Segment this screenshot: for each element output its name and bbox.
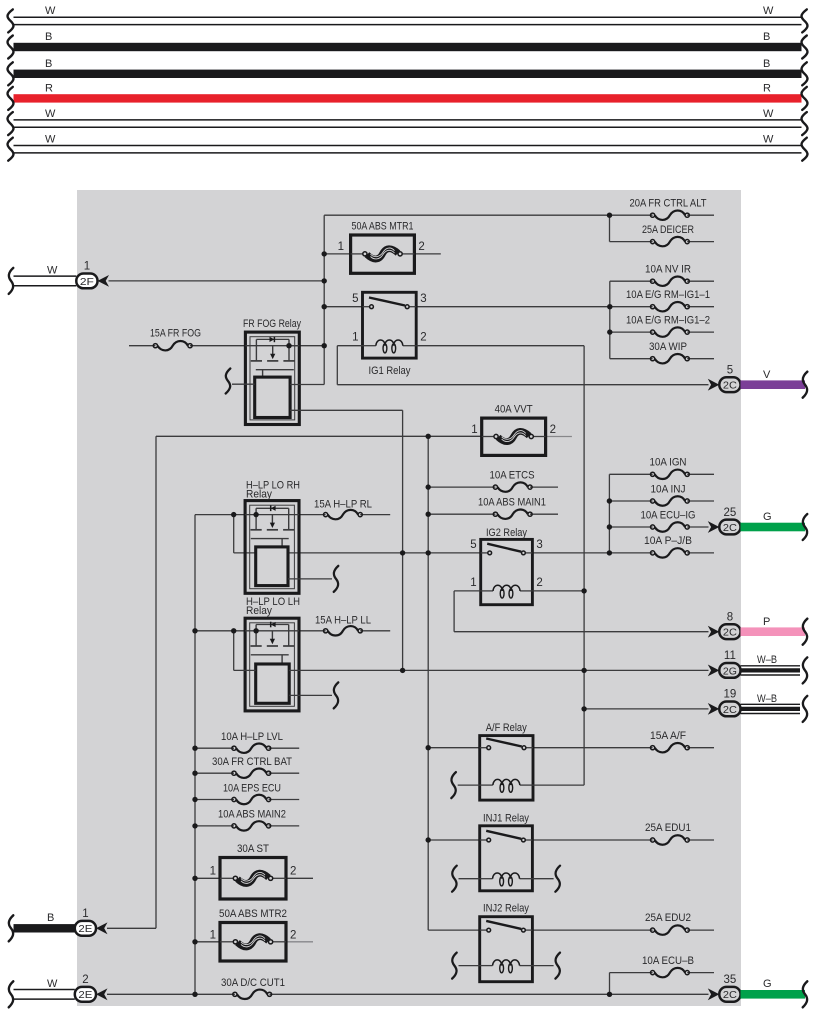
fuse 50A ABS MTR2 (220, 923, 286, 962)
wire: INJ2 feed row (428, 929, 480, 931)
fuse 10A NV IR (645, 264, 691, 286)
wire: 50A ABS MTR1 output stub (414, 253, 440, 255)
fuse 10A INJ (651, 484, 690, 506)
wire: IG2 pin3 to 10A P-J/B row (532, 552, 714, 554)
svg-text:B: B (47, 912, 54, 924)
wire: 2C-19 row (584, 708, 708, 710)
wire: IG2 pin1 stub (454, 590, 481, 592)
wire: 10A ABS MAIN2 row (195, 825, 299, 827)
wire: 2F row (109, 280, 325, 282)
svg-text:2G: 2G (723, 666, 737, 677)
harness wire B (8, 31, 808, 58)
fuse 30A FR CTRL BAT (212, 756, 292, 778)
wire: IG1 pin1 stub (337, 345, 362, 347)
svg-text:1: 1 (471, 424, 477, 436)
relay IG2 box (470, 539, 543, 605)
fuse/relay box panel (77, 190, 741, 1006)
svg-text:10A ABS MAIN2: 10A ABS MAIN2 (218, 809, 286, 821)
svg-text:2F: 2F (80, 277, 94, 288)
svg-text:1: 1 (210, 866, 216, 878)
svg-text:1: 1 (338, 241, 344, 253)
relay INJ2 box (480, 917, 533, 982)
wire: A/F pin out to 15A A/F row (533, 747, 714, 749)
svg-text:INJ1 Relay: INJ1 Relay (483, 813, 529, 825)
relay FR FOG box (245, 332, 299, 424)
svg-text:10A IGN: 10A IGN (650, 457, 687, 469)
wire: bus x=428 ECU feed down (427, 436, 429, 930)
fuse 25A EDU2 (645, 912, 691, 935)
svg-text:2E: 2E (78, 924, 92, 935)
connector 2C pin 19 with W-B wire (708, 689, 808, 722)
svg-text:20A FR CTRL ALT: 20A FR CTRL ALT (630, 198, 707, 210)
wire: A/F coil right to bus x=584 (533, 784, 584, 786)
svg-text:2: 2 (82, 974, 88, 986)
svg-text:INJ2 Relay: INJ2 Relay (483, 903, 529, 915)
svg-text:G: G (763, 978, 772, 990)
fuse 25A EDU1 (645, 822, 691, 845)
relay A/F box (480, 736, 533, 801)
wire: H-LP RH inner feed drop x=233.7 (233, 515, 235, 553)
svg-text:2C: 2C (723, 628, 738, 639)
svg-text:50A ABS MTR1: 50A ABS MTR1 (352, 221, 414, 233)
fuse 10A ABS MAIN2 (218, 809, 286, 831)
wire: H-LP LH inner feed drop x=233.7 (233, 631, 235, 671)
wire: 10A ECU-B row (610, 972, 715, 974)
svg-text:25A DEICER: 25A DEICER (642, 224, 694, 236)
svg-text:15A FR FOG: 15A FR FOG (150, 328, 201, 340)
svg-text:40A VVT: 40A VVT (495, 404, 533, 416)
wire: bus x=584 IG1 pin2 down (583, 346, 585, 785)
wire: H-LP LH second output to break (289, 682, 338, 708)
svg-text:10A ETCS: 10A ETCS (490, 470, 535, 482)
connector 2C pin 8 with P wire (708, 612, 808, 645)
svg-text:W: W (763, 108, 774, 120)
svg-text:5: 5 (470, 539, 476, 551)
svg-text:2E: 2E (78, 990, 92, 1001)
wire: 10A E/G RM-IG1-2 row (610, 331, 714, 333)
fuse 15A A/F (650, 730, 689, 752)
wire: 25A DEICER row (610, 241, 715, 243)
wire: 50A ABS MTR1 feed row (324, 253, 350, 255)
wire: switched row H-LP LH out to 2G-11 (234, 669, 709, 671)
wire: H-LP RH second output to break (288, 566, 338, 592)
svg-text:FR FOG Relay: FR FOG Relay (243, 318, 301, 330)
fuse 10A EPS ECU (223, 783, 281, 805)
svg-text:B: B (763, 31, 770, 43)
wire: 40A VVT output stub (546, 436, 572, 438)
svg-text:2: 2 (418, 241, 424, 253)
svg-text:30A FR CTRL BAT: 30A FR CTRL BAT (212, 756, 292, 768)
connector 2G pin 11 with W-B wire (708, 650, 808, 683)
harness wire R (8, 83, 808, 110)
connector 2C pin 25 with G wire (708, 507, 808, 540)
svg-text:W–B: W–B (757, 654, 777, 666)
svg-text:A/F Relay: A/F Relay (486, 722, 527, 734)
wire: 20A/25A fuse branch vertical (609, 215, 611, 241)
wire: 10A INJ row (609, 500, 714, 502)
wire: FR FOG inner second output (290, 409, 403, 411)
svg-text:35: 35 (724, 974, 737, 986)
wire: main feed row y=436 (156, 435, 482, 437)
svg-text:2: 2 (290, 930, 296, 942)
fuse 40A VVT (482, 418, 546, 455)
label H-LP LO LH Relay (246, 596, 300, 617)
svg-text:W–B: W–B (757, 693, 777, 705)
fuse 10A E/G RM-IG1-2 (626, 315, 710, 337)
fuse 10A H-LP LVL (221, 731, 283, 753)
wire: FR FOG output to bus (289, 345, 324, 347)
svg-text:W: W (45, 108, 56, 120)
svg-text:1: 1 (210, 930, 216, 942)
fuse 15A FR FOG (150, 328, 201, 351)
svg-text:B: B (45, 58, 52, 70)
svg-text:2C: 2C (723, 381, 738, 392)
wire: 10A ETCS row (428, 486, 558, 488)
svg-text:2C: 2C (723, 990, 738, 1001)
svg-text:2: 2 (420, 332, 426, 344)
svg-text:W: W (45, 5, 56, 17)
wire: 15A H-LP LL row (299, 630, 390, 632)
svg-text:B: B (763, 58, 770, 70)
svg-text:IG1 Relay: IG1 Relay (369, 365, 411, 377)
fuse 15A H-LP RL (314, 499, 372, 520)
wire: H-LP LO RH feed row (195, 514, 245, 516)
svg-text:2C: 2C (723, 705, 738, 716)
fuse 10A ABS MAIN1 (478, 497, 546, 519)
wire: INJ1 coil right break (532, 866, 560, 892)
svg-text:30A ST: 30A ST (237, 843, 269, 855)
svg-text:2C: 2C (723, 523, 738, 534)
svg-text:10A ABS MAIN1: 10A ABS MAIN1 (478, 497, 546, 509)
wire: 30A ST feed row (195, 877, 220, 879)
svg-text:V: V (763, 369, 771, 381)
svg-text:3: 3 (536, 539, 542, 551)
connector 2E pin 2 with W wire (9, 974, 108, 1007)
svg-text:2: 2 (536, 577, 542, 589)
wire: bus x=324 main feed (323, 215, 325, 384)
relay INJ1 box (480, 826, 533, 891)
svg-text:2: 2 (550, 424, 556, 436)
svg-text:30A WIP: 30A WIP (649, 341, 687, 353)
fuse 10A ECU-B (642, 955, 694, 977)
svg-text:10A ECU–IG: 10A ECU–IG (641, 510, 696, 522)
fuse 15A H-LP LL (315, 615, 371, 636)
wire: switched row H-LP RH out to IG2 pin5 (234, 552, 481, 554)
svg-text:Relay: Relay (246, 605, 272, 617)
wire: A/F relay feed row (428, 747, 480, 749)
wire: IG1 pin3 to E/G RM-IG1-1 row (416, 306, 714, 308)
wire: NV-IR/WIP fuse group vertical (609, 281, 611, 359)
svg-text:W: W (763, 5, 774, 17)
wire: V-output row IG1 pin1 to 2C-5 (337, 384, 708, 386)
svg-text:W: W (47, 265, 58, 277)
wire: INJ2 coil right break (532, 953, 560, 979)
svg-text:50A ABS MTR2: 50A ABS MTR2 (219, 908, 287, 920)
svg-text:10A E/G RM–IG1–1: 10A E/G RM–IG1–1 (626, 289, 710, 301)
svg-text:15A H–LP LL: 15A H–LP LL (315, 615, 371, 627)
fuse 20A FR CTRL ALT (630, 198, 707, 220)
svg-text:10A EPS ECU: 10A EPS ECU (223, 783, 281, 795)
wire: IG2 pin1 drop x=454 (453, 591, 455, 632)
wire: ECU-B branch vertical (609, 973, 611, 995)
fuse 10A ETCS (490, 470, 535, 492)
wire: 30A ST output stub (286, 877, 313, 879)
connector 2C pin 5 with V wire (708, 365, 808, 398)
svg-text:10A INJ: 10A INJ (651, 484, 686, 496)
relay H-LP LO LH box (245, 618, 299, 711)
wire: INJ1 coil left break (452, 866, 480, 892)
svg-text:8: 8 (727, 612, 733, 624)
wire: 15A FR FOG feed row (129, 345, 245, 347)
wire: 10A H-LP LVL row (195, 747, 299, 749)
relay H-LP LO RH box (245, 501, 299, 594)
wire: INJ2 coil left break (452, 953, 480, 979)
connector 2C pin 35 with G wire (708, 974, 808, 1007)
svg-text:10A E/G RM–IG1–2: 10A E/G RM–IG1–2 (626, 315, 710, 327)
harness wire B (8, 58, 808, 85)
svg-text:10A H–LP LVL: 10A H–LP LVL (221, 731, 283, 743)
svg-text:1: 1 (82, 908, 88, 920)
fuse 10A E/G RM-IG1-1 (626, 289, 710, 311)
svg-text:1: 1 (352, 332, 358, 344)
wire: 10A ECU-IG row to 2C-25 (609, 526, 708, 528)
wire: 10A EPS ECU row (195, 799, 299, 801)
wire: INJ2 out to 25A EDU2 row (532, 929, 714, 931)
wire: 10A NV IR row (610, 280, 714, 282)
svg-text:11: 11 (724, 650, 736, 662)
fuse 25A DEICER (642, 224, 694, 246)
svg-text:5: 5 (352, 293, 358, 305)
svg-text:W: W (763, 133, 774, 145)
fuse 10A ECU-IG (641, 510, 696, 532)
svg-text:G: G (763, 511, 772, 523)
wire: IG1 pin2 stub (416, 345, 584, 347)
wire: top feed row to 20A FR CTRL ALT (324, 214, 714, 216)
wire: INJ1 out to 25A EDU1 row (532, 839, 714, 841)
fuse 10A IGN (650, 457, 690, 480)
svg-text:15A A/F: 15A A/F (650, 730, 686, 742)
relay IG1 box (352, 292, 427, 358)
svg-text:R: R (763, 83, 771, 95)
wire: 10A IGN row (609, 473, 714, 475)
wire: 2C-8 row from IG2 pin1 (454, 631, 708, 633)
connector 2F pin 1 with W wire (9, 261, 109, 294)
wire: 50A ABS MTR2 feed row (195, 941, 220, 943)
svg-text:10A P–J/B: 10A P–J/B (644, 535, 692, 547)
fuse 30A WIP (649, 341, 689, 363)
svg-text:25: 25 (724, 507, 737, 519)
wire: bus from 2E-1 up left side x=156 (155, 436, 157, 928)
svg-text:1: 1 (84, 261, 90, 273)
wire: IG1 pin1 drop x=337 (336, 346, 338, 385)
svg-text:3: 3 (420, 293, 426, 305)
wire: 50A ABS MTR2 output stub (286, 941, 313, 943)
svg-text:19: 19 (724, 689, 737, 701)
svg-text:W: W (47, 978, 58, 990)
svg-text:R: R (45, 83, 53, 95)
fuse 10A P-J/B (644, 535, 692, 558)
wire: 30A WIP row (610, 358, 714, 360)
svg-text:1: 1 (470, 577, 476, 589)
svg-text:W: W (45, 133, 56, 145)
wire: 2E-1 row (107, 927, 156, 929)
fuse 50A ABS MTR1 (351, 235, 415, 273)
wire: H-LP LO LH feed row (195, 630, 245, 632)
wire: FR FOG inner left to break (226, 369, 255, 394)
svg-text:25A EDU2: 25A EDU2 (645, 912, 691, 924)
fuse 30A D/C CUT1 (221, 977, 285, 999)
connector 2E pin 1 with B wire (9, 908, 108, 941)
wire: bus x=195 feed for left fuses (194, 515, 196, 995)
svg-text:10A ECU–B: 10A ECU–B (642, 955, 694, 967)
svg-text:P: P (763, 616, 770, 628)
wire: H-LP RH to 15A H-LP RL row (299, 514, 390, 516)
svg-text:2: 2 (290, 866, 296, 878)
svg-text:IG2 Relay: IG2 Relay (486, 527, 527, 539)
svg-text:30A D/C CUT1: 30A D/C CUT1 (221, 977, 285, 989)
wire: A/F coil left to break (451, 772, 479, 798)
wire: IGN/P-J/B fuse group vertical (608, 474, 610, 553)
wire: bottom bus 2E-2 to 2C-35 (107, 993, 709, 995)
wire: IG1 pin5 feed row (324, 306, 362, 308)
wire: INJ1 feed row (428, 839, 480, 841)
wire: bus x=402.6 FR FOG output down (402, 410, 404, 670)
svg-text:5: 5 (727, 365, 733, 377)
svg-text:15A H–LP RL: 15A H–LP RL (314, 499, 372, 511)
wire: 10A ABS MAIN1 row (428, 513, 558, 515)
svg-text:25A EDU1: 25A EDU1 (645, 822, 691, 834)
svg-text:B: B (45, 31, 52, 43)
fuse 30A ST (220, 858, 286, 900)
harness wire W (8, 108, 808, 135)
svg-text:10A NV IR: 10A NV IR (645, 264, 691, 276)
wire: FR FOG inner right to bus x=324 (290, 384, 324, 386)
label H-LP LO RH Relay (246, 480, 300, 501)
wire: IG2 pin2 to bus (532, 590, 584, 592)
svg-text:Relay: Relay (246, 489, 272, 501)
harness wire W (8, 5, 808, 32)
wire: 30A FR CTRL BAT row (195, 772, 299, 774)
harness wire W (8, 133, 808, 160)
